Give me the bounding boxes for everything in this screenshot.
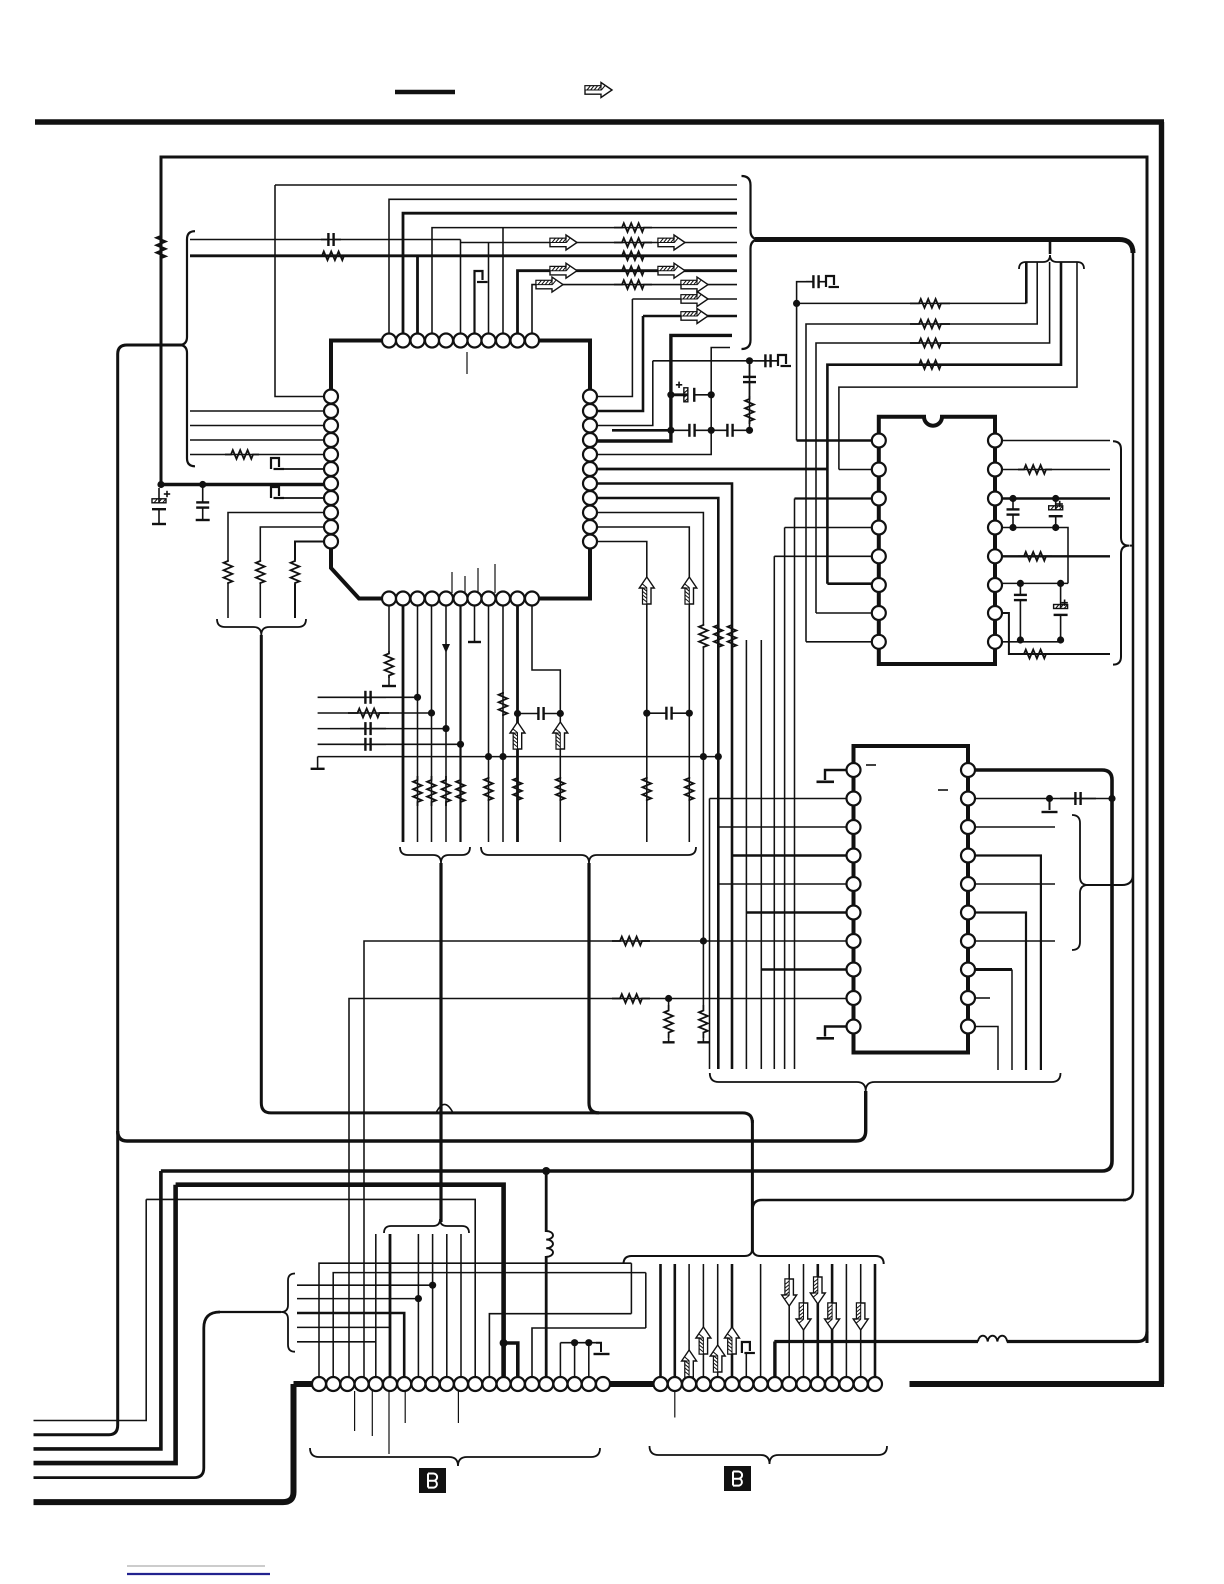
wire pin R4 thick riser [597, 335, 732, 441]
IC U1 right pin 7 [583, 477, 597, 491]
wire left big brace [179, 231, 195, 466]
wire left stem down [261, 635, 752, 1123]
resistor U2 R7 [1018, 650, 1052, 659]
wire U2 L5 [774, 555, 872, 557]
resistor R B11 [556, 777, 565, 801]
IC U2 right pin 5 [988, 549, 1002, 563]
brace over IC2 feeds [1019, 255, 1084, 269]
wire T3 drop thick [416, 256, 419, 334]
capacitor U2 right a [1012, 499, 1014, 510]
IC U1 left pin 8 [324, 491, 338, 505]
wire x703 gnd stem [702, 1038, 704, 1042]
IC U3 R2 tick [938, 789, 948, 791]
chassis flag conn1 right [596, 1343, 601, 1352]
IC U1 left pin 3 [324, 419, 338, 433]
wire hop over stem [436, 1104, 453, 1112]
wire pin R7 drop [597, 484, 732, 1070]
junction dot L7 at frame [157, 481, 164, 488]
signal arrow y299 [681, 292, 708, 307]
IC U1 inner tick 3 [477, 568, 479, 593]
wire U2 L6 [827, 582, 872, 585]
IC U3 right pin 10 [961, 1020, 975, 1034]
wire stem x441 [439, 863, 442, 1222]
wire conn2 pin 9 riser [773, 1342, 776, 1385]
wire pin R1 riser [597, 299, 632, 397]
IC U1 bottom pin 9 [496, 592, 510, 606]
wire conn2 pin 8 stub [760, 1264, 762, 1384]
IC U1 top pin 9 [496, 334, 510, 348]
wire conn2 pin 5 stub [717, 1264, 719, 1384]
junction dot bus x718 [715, 753, 722, 760]
brace A under IC1 [400, 847, 470, 863]
wire U2 R5 [1002, 555, 1110, 557]
wire L9 line [228, 513, 324, 561]
resistor on y713 [348, 709, 389, 718]
junction dot U2 R3 b [1052, 495, 1059, 502]
wire U2 L3 col [794, 499, 796, 1070]
signal arrow y316 [681, 309, 708, 324]
connector CN2 pin 15 [854, 1377, 868, 1391]
resistor R B6 [456, 776, 465, 806]
connector CN2 pin 3 [682, 1377, 696, 1391]
IC U3 left pin 10 [847, 1020, 861, 1034]
wire U2 L8 [806, 641, 872, 643]
wire inner frame top [160, 156, 1149, 159]
resistor R B5 [442, 776, 451, 806]
wire bus y1185 [176, 1185, 504, 1384]
wire bus line y227 [432, 228, 737, 334]
ground bar C2 [196, 519, 210, 521]
resistor on y227 line [614, 223, 652, 232]
wire bus line y185 [275, 184, 737, 186]
resistor R x749 [745, 396, 754, 424]
wire pin R9 drop thick [597, 513, 703, 625]
wire pin B8 drop [488, 606, 490, 843]
IC U1 left pin 2 [324, 404, 338, 418]
wire x668 gnd col [668, 999, 670, 1006]
junction dot R10col [686, 710, 693, 717]
capacitor R11-R10 cols [647, 712, 667, 714]
ground tee B7 [468, 641, 481, 643]
wire pin B5 drop [445, 606, 447, 843]
wire pin R8 drop [597, 498, 718, 1069]
IC U1 bottom pin 5 [439, 592, 453, 606]
IC U1 left pin 4 [324, 433, 338, 447]
IC U1 top pin 7 [468, 334, 482, 348]
wire U3 L4 [732, 854, 847, 857]
IC U3 right pin 2 [961, 792, 975, 806]
resistor U2 R2 [1018, 465, 1052, 474]
resistor R x703 gnd [699, 1005, 708, 1038]
resistor R B4 [427, 776, 436, 806]
IC U2 left pin 1 [872, 434, 886, 448]
wire feed line4 thick [827, 262, 1061, 584]
IC U2 right pin 8 [988, 635, 1002, 649]
IC U3 pin1 tick [866, 764, 876, 766]
IC U3 left pin 4 [847, 849, 861, 863]
resistor R x668 gnd [664, 1005, 673, 1038]
wire conn2 pin 10 stub [788, 1264, 790, 1384]
inductor L1 vertical [546, 1231, 553, 1257]
wire brace tip link conn1 [218, 1311, 281, 1313]
wire conn1 pin9 v [432, 1234, 434, 1384]
chassis flag y361 [778, 355, 786, 366]
wire U3 R9 [975, 997, 991, 999]
wire U3 L1 flag stem [825, 770, 847, 780]
resistor R L9 [224, 560, 233, 584]
chassis flag pin L8 [271, 487, 279, 498]
IC U3 left pin 1 [847, 763, 861, 777]
wire L4 line [190, 439, 324, 441]
IC U1 bottom pin 6 [454, 592, 468, 606]
brace over conn1 [384, 1219, 469, 1233]
wire L9 resistor tail [227, 584, 229, 618]
junction dot B6 [457, 741, 464, 748]
wire conn1 brline1 [297, 1284, 433, 1286]
IC U1 bottom pin 3 [411, 592, 425, 606]
connector CN2 pin 4 [696, 1377, 710, 1391]
wire U3 R5 [975, 883, 1056, 885]
wire conn2 pin 1 stub [659, 1264, 662, 1384]
wire left brace feed [34, 345, 184, 1435]
legend hatched arrow [585, 83, 612, 98]
IC U1 bottom pin 4 [425, 592, 439, 606]
connector CN2 pin 6 [725, 1377, 739, 1391]
wire pin R6 thick [597, 468, 827, 471]
wire conn1 pin8 v [417, 1234, 419, 1384]
IC U1 top pin 2 [396, 334, 410, 348]
junction dot x711 bot [708, 427, 715, 434]
IC U3 outline [854, 746, 969, 1053]
IC U1 top pin 8 [482, 334, 496, 348]
wire pin B2 drop thick [402, 606, 405, 843]
signal arrow up B10 [510, 722, 525, 749]
junction dot U2 R4 b [1052, 524, 1059, 531]
connector CN1 pin 8 [411, 1377, 425, 1391]
top page border line [35, 119, 1164, 125]
wire bus line y316 thick [643, 315, 737, 318]
connector CN1 pin 11 [454, 1377, 468, 1391]
wire L3 line [190, 425, 324, 427]
wire conn1 pin12 jog [489, 1314, 631, 1384]
IC U3 left pin 3 [847, 820, 861, 834]
capacitor y430 b [711, 429, 727, 431]
wire conn2 stub x645 [645, 1273, 647, 1328]
capacitor on y744 [350, 743, 365, 745]
IC U2 left pin 2 [872, 463, 886, 477]
signal arrow y270 b [658, 263, 685, 278]
wire L10 resistor tail [259, 584, 261, 618]
wire bus line y270 thick [518, 271, 738, 334]
resistor R x646 low [642, 777, 651, 801]
signal arrow down c2f [810, 1277, 825, 1304]
signal arrow down c2h [825, 1303, 840, 1330]
junction dot x670 bot [667, 427, 674, 434]
connector CN1 pin 14 [497, 1377, 511, 1391]
IC U1 pin1 tick top [466, 352, 468, 374]
footer rule blue [127, 1573, 270, 1575]
connector CN2 pin 8 [754, 1377, 768, 1391]
connector CN1 pin 5 [369, 1377, 383, 1391]
wire pin R2 riser thick [597, 316, 643, 411]
signal arrow up R10col [682, 577, 697, 604]
wire U2 R8 [1002, 641, 1061, 643]
brace right of U2 [1113, 441, 1129, 664]
junction dot B10 cap [514, 710, 521, 717]
wire conn1 right h [560, 1342, 596, 1344]
resistor U3 L7 line [612, 937, 650, 946]
resistor on y270 line [614, 266, 652, 275]
wire stub y697 [318, 696, 418, 698]
wire branch pin14 [504, 1343, 518, 1384]
standalone legend dash [395, 90, 455, 95]
wire U3 brace stem [127, 1091, 866, 1141]
IC U1 bottom pin 2 [396, 592, 410, 606]
connector CN2 pin 13 [825, 1377, 839, 1391]
signal arrow up B11 [553, 722, 568, 749]
wire pin B9 drop [502, 606, 504, 843]
IC U2 left pin 3 [872, 492, 886, 506]
resistor R x689 low [685, 777, 694, 801]
wire U3 R6 [975, 913, 1027, 1071]
wire x749 riser [749, 361, 751, 431]
arrowhead on B5 [442, 644, 450, 653]
wire exit line 4 [34, 1185, 176, 1463]
IC U3 right pin 7 [961, 934, 975, 948]
wire stub y728 [318, 728, 446, 730]
IC U1 left pin 9 [324, 506, 338, 520]
ground bar C1 [152, 523, 166, 525]
brace under conn1 [310, 1448, 600, 1466]
wire U3 R1 bus [161, 770, 1112, 1171]
IC U2 left pin 8 [872, 635, 886, 649]
wire stub below p5 [388, 1391, 390, 1454]
resistor feed line4 [910, 360, 950, 369]
chassis flag U3 L1 [817, 780, 835, 783]
capacitor y361 [755, 360, 765, 362]
IC U2 left pin 4 [872, 521, 886, 535]
wire stem x589 [589, 863, 599, 1113]
wire U2 L5 col [773, 556, 775, 1069]
wire exit line 3 [34, 1171, 161, 1449]
brace left conn1 [281, 1274, 295, 1352]
wire feed v1 [1025, 262, 1028, 303]
IC U3 left pin 6 [847, 906, 861, 920]
junction dot U2 R8 a [1017, 636, 1024, 643]
connector CN2 pin 9 [768, 1377, 782, 1391]
junction dot brline2 [415, 1295, 422, 1302]
wire bus line y299 [632, 298, 737, 300]
junction dot U2 R4 a [1009, 524, 1016, 531]
IC U1 top pin 5 [439, 334, 453, 348]
wire bottom bus left [294, 1381, 657, 1387]
ground bar x703 [697, 1041, 709, 1043]
junction dot U2 R6 a [1017, 580, 1024, 587]
footer rule gray [127, 1565, 265, 1567]
wire conn2 pin 4 stub [702, 1264, 704, 1384]
resistor R B10 [513, 777, 522, 801]
junction dot B4 [428, 709, 435, 716]
wire U3 brace tip link [1086, 874, 1133, 885]
IC U2 right pin 4 [988, 521, 1002, 535]
wire conn1 pin15 jog [532, 1328, 646, 1384]
IC U1 right pin 10 [583, 520, 597, 534]
junction dot B9 bus [499, 753, 506, 760]
resistor R L11 [291, 560, 300, 584]
wire U3 R2 [975, 798, 1113, 800]
wire U3 L9 line [349, 999, 847, 1385]
wire y1200 branch arc [752, 1200, 762, 1210]
wire pin R3 riser [597, 361, 653, 426]
signal arrow y284 b [681, 277, 708, 292]
junction dot U3 R2 b [1108, 795, 1115, 802]
junction dot U2 R6 b [1057, 580, 1064, 587]
IC U3 right pin 6 [961, 906, 975, 920]
wire U3 R3 [975, 826, 1056, 828]
wire conn2 pin 14 stub [845, 1264, 847, 1384]
wire U2 L4 col [784, 528, 786, 1070]
connector CN1 pin 17 [539, 1377, 553, 1391]
IC U1 left pin 10 [324, 520, 338, 534]
wire conn2 pin 13 stub [831, 1264, 834, 1384]
wire inner frame left [160, 156, 163, 485]
wire pin R5 riser [597, 348, 730, 455]
wire U3 L8 [761, 968, 846, 971]
resistor on L5 line [225, 450, 259, 459]
wire feed line1 [797, 302, 1027, 304]
label B box 1 [419, 1468, 446, 1493]
brace right of top bundle [742, 176, 760, 349]
connector CN1 pin 4 [355, 1377, 369, 1391]
connector CN1 pin 15 [511, 1377, 525, 1391]
junction dot x796 [793, 300, 800, 307]
capacitor on y728 [350, 728, 365, 730]
resistor R x703 col [699, 624, 708, 648]
junction dot B5 [442, 725, 449, 732]
wire U3 L6 [746, 911, 846, 914]
chassis flag pin T7 [475, 271, 483, 282]
wire U2 L4 [785, 527, 872, 529]
wire stub below p4 [371, 1391, 373, 1436]
capacitor B10-B11 [518, 713, 539, 715]
wire T8 riser [488, 243, 490, 334]
wire U3 R7 [975, 940, 1056, 942]
wire U2 R3 [1002, 497, 1110, 499]
wire conn2 pin 15 stub [860, 1264, 862, 1384]
resistor R B1 [385, 651, 394, 678]
wire x796 to L1 [796, 303, 798, 440]
ground bar x668 [663, 1041, 675, 1043]
connector CN1 pin 21 [596, 1377, 610, 1391]
connector CN1 pin 3 [340, 1377, 354, 1391]
electrolytic U2 right a [1055, 499, 1057, 510]
IC U2 left pin 6 [872, 578, 886, 592]
connector CN2 pin 2 [668, 1377, 682, 1391]
chassis flag U3 R2 [1049, 799, 1051, 811]
wire bus y756 gnd stem [317, 757, 319, 769]
wire L5 line [190, 454, 324, 456]
junction dot U2 R3 a [1009, 495, 1016, 502]
IC U2 right pin 3 [988, 492, 1002, 506]
junction dot x668 [665, 995, 672, 1002]
signal arrow up c2a [682, 1350, 697, 1377]
IC U1 left pin 11 [324, 535, 338, 549]
connector CN2 pin 14 [839, 1377, 853, 1391]
electrolytic U2 right b [1060, 583, 1062, 608]
wire thick bus to right [755, 240, 1133, 254]
wire feed line3 [816, 262, 1050, 613]
connector CN1 pin 12 [468, 1377, 482, 1391]
resistor feed line1 [910, 299, 950, 308]
wire L8 stem [282, 497, 324, 499]
IC U1 right pin 3 [583, 419, 597, 433]
signal arrow up R11col [639, 577, 654, 604]
IC U1 left pin 6 [324, 462, 338, 476]
connector CN2 pin 10 [782, 1377, 796, 1391]
junction dot B3 [414, 694, 421, 701]
wire cap line y239 left [190, 239, 461, 241]
chassis flag conn2 [742, 1342, 750, 1353]
junction dot B8 bus [485, 753, 492, 760]
wire x703 col tail [702, 648, 704, 941]
IC U1 right pin 11 [583, 535, 597, 549]
connector CN1 pin 20 [582, 1377, 596, 1391]
wire conn2 pin 7 stub [745, 1353, 747, 1384]
connector CN1 pin 9 [426, 1377, 440, 1391]
capacitor U2 right b [1019, 583, 1021, 595]
wire bus line y256 thick [190, 254, 737, 257]
junction dot x749 bot [746, 427, 753, 434]
wire pin B6 drop [459, 606, 461, 843]
IC U1 right pin 8 [583, 491, 597, 505]
IC U1 bottom pin 11 [525, 592, 539, 606]
wire stub below c2p2 [674, 1391, 676, 1418]
wire conn2 pin 3 stub [688, 1264, 690, 1384]
wire conn2 stem [751, 1120, 754, 1252]
wire L11 line [295, 542, 324, 561]
IC U1 top pin 6 [454, 334, 468, 348]
resistor on y256 right [614, 251, 652, 260]
IC U1 bottom pin 8 [482, 592, 496, 606]
wire conn1 brline4 [297, 1326, 390, 1328]
capacitor x749 [749, 365, 751, 377]
wire L10 line [260, 527, 324, 560]
wire bottom right bus segment [910, 1381, 1165, 1387]
wire conn1 brline5 [297, 1341, 376, 1343]
brace right of U3 [1072, 815, 1088, 950]
signal arrow up c2b [696, 1327, 711, 1354]
wire pin L1 feed [275, 185, 324, 397]
IC U1 main QFP outline [331, 341, 590, 599]
capacitor U3 R2 [1060, 798, 1075, 800]
brace under U3 [710, 1073, 1061, 1091]
wire bus line y199 [389, 199, 737, 333]
wire x668 gnd stem [668, 1038, 670, 1042]
IC U3 right pin 8 [961, 963, 975, 977]
IC U3 left pin 8 [847, 963, 861, 977]
connector CN1 pin 16 [525, 1377, 539, 1391]
wire inductor line [774, 1340, 978, 1343]
brace under conn2 [650, 1446, 888, 1464]
IC U3 left pin 5 [847, 877, 861, 891]
junction dot x670 top [667, 391, 674, 398]
IC U1 right pin 5 [583, 448, 597, 462]
resistor U2 R5 [1018, 552, 1052, 561]
wire U3 L8 col [760, 640, 762, 1069]
wire conn1 pin2 h [333, 1273, 646, 1384]
signal arrow down c2i [853, 1303, 868, 1330]
IC U1 bottom pin 1 [382, 592, 396, 606]
